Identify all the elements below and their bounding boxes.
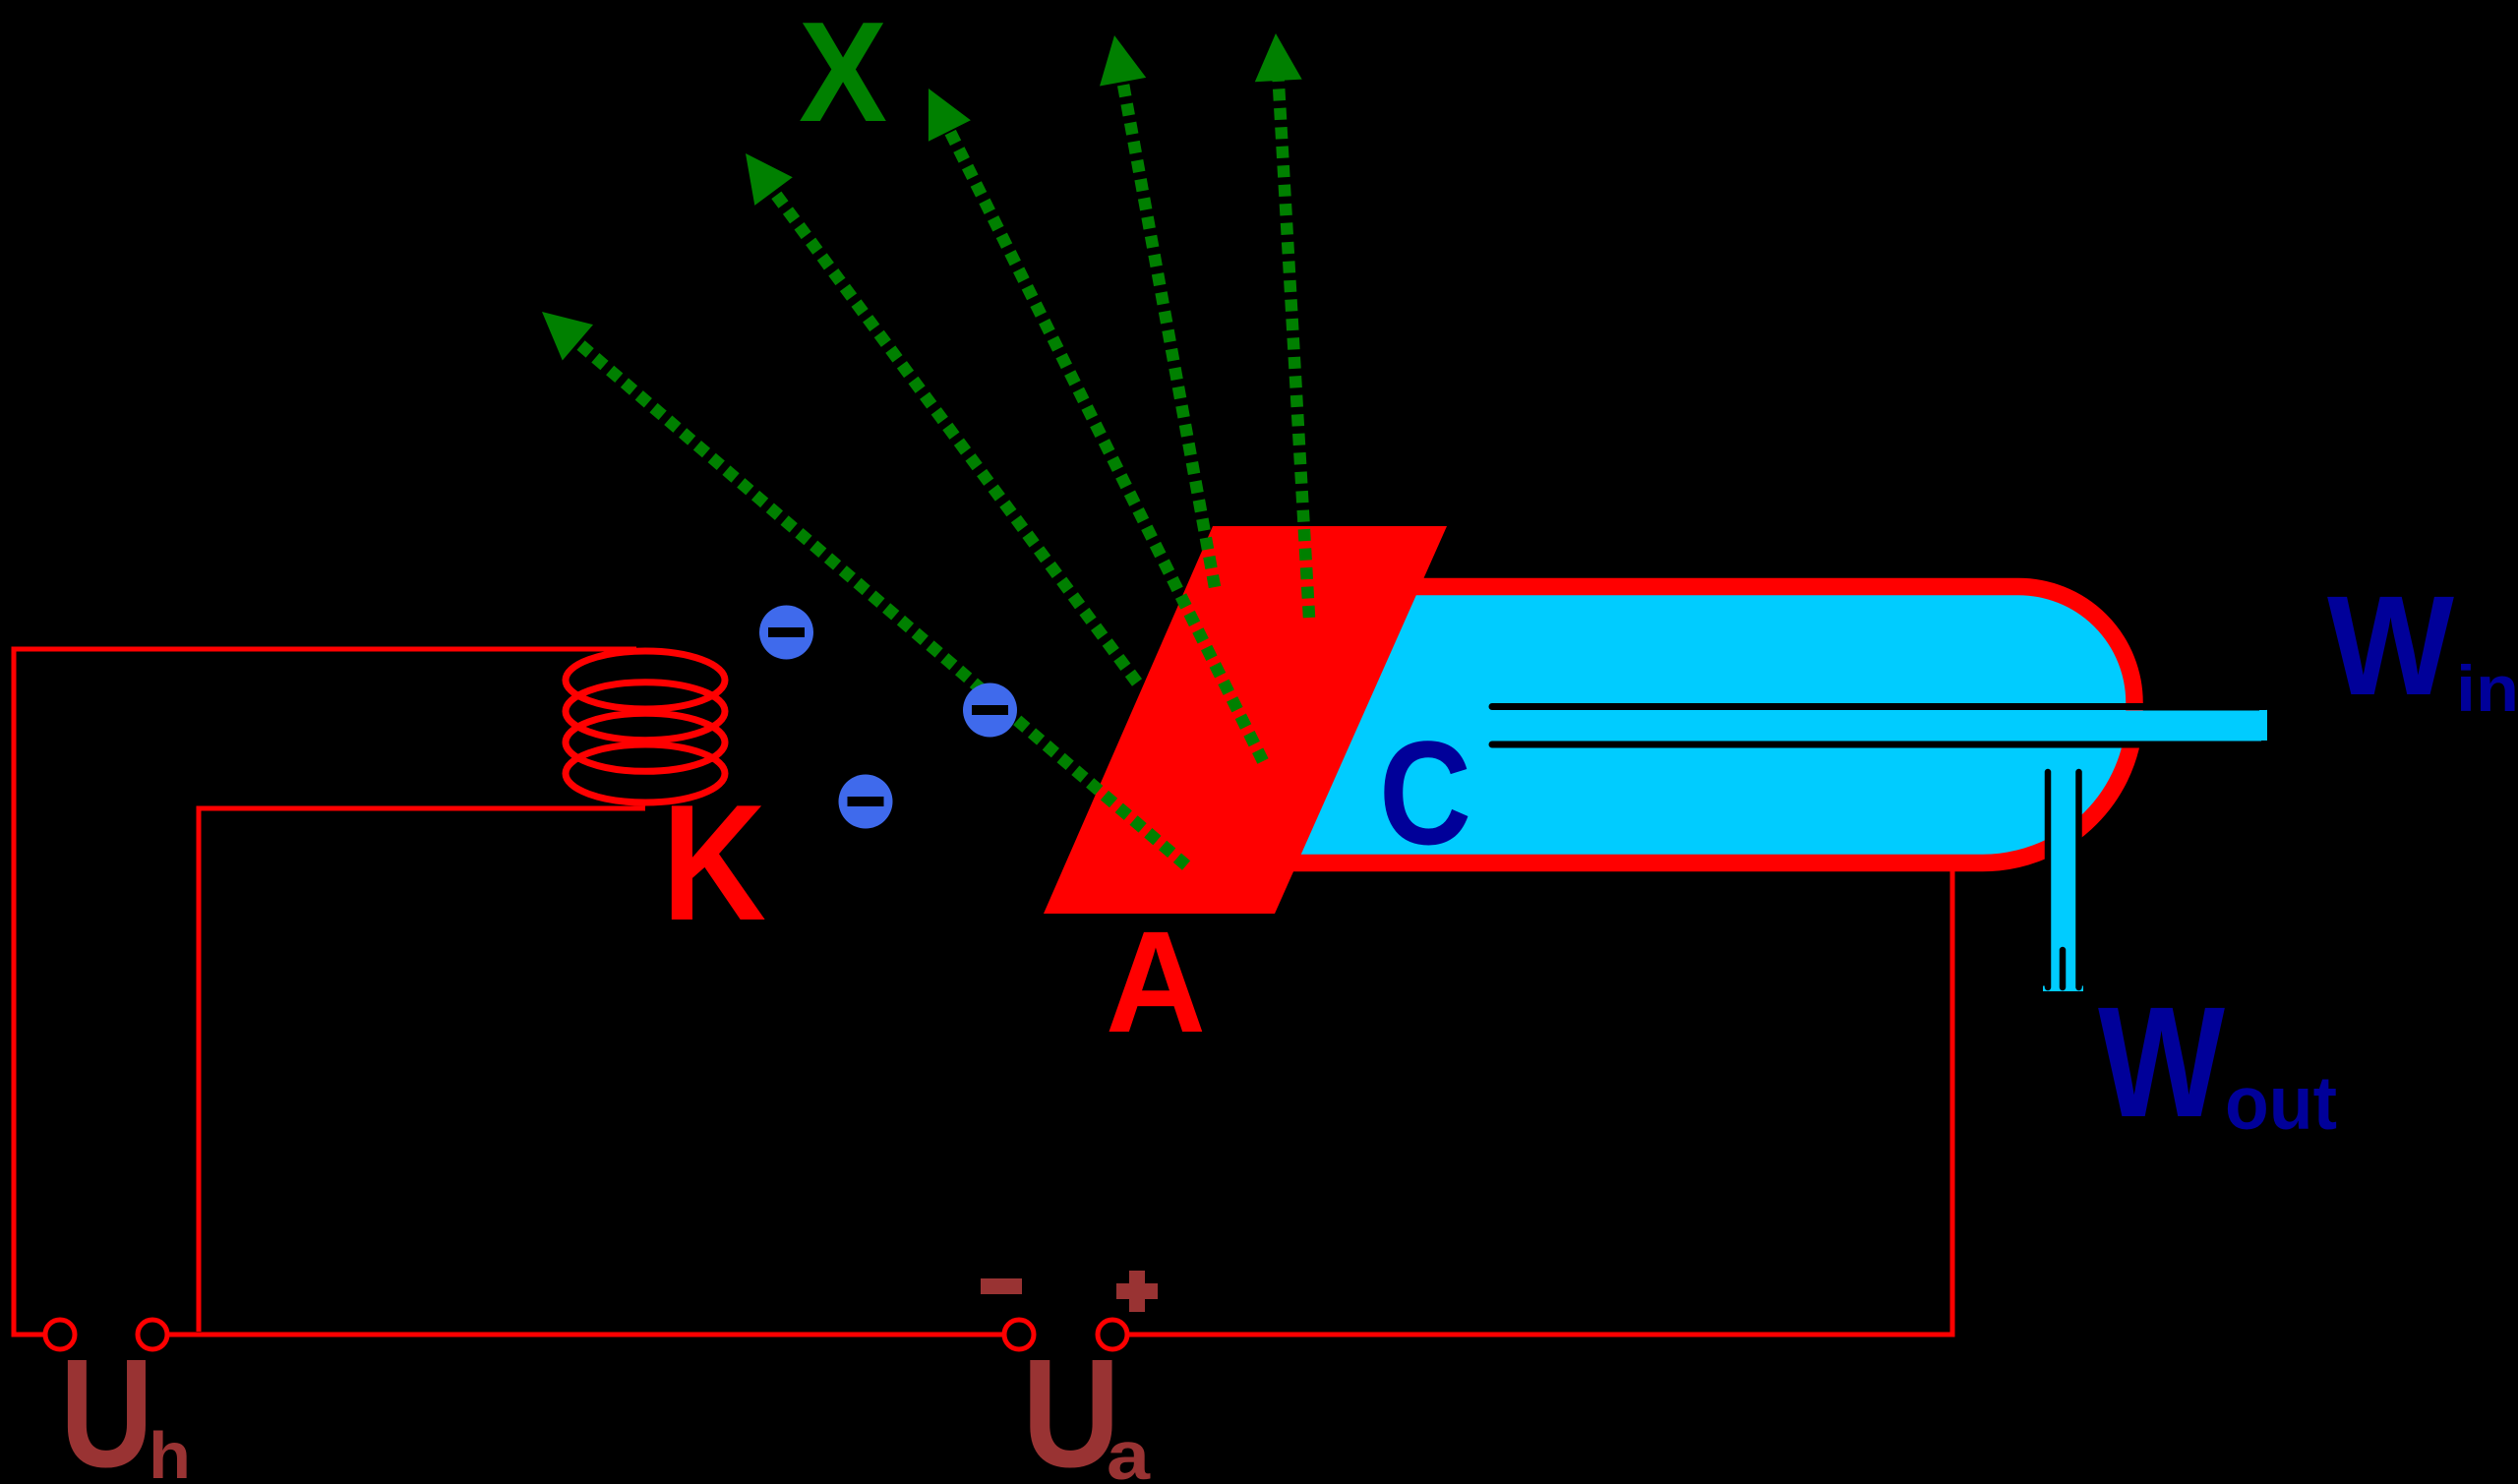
X-ray arrow 4 head bbox=[1100, 35, 1146, 87]
cathode filament coil K bbox=[566, 651, 725, 802]
water outlet pipe (vertical, W_out) bbox=[2051, 814, 2076, 991]
X-ray arrow 5 (dashed) bbox=[1278, 59, 1310, 618]
svg-text:W: W bbox=[2327, 566, 2454, 725]
X-ray arrow 4 (dashed) bbox=[1119, 61, 1215, 587]
electron 2 (e- symbol) bbox=[963, 683, 1017, 738]
svg-text:out: out bbox=[2225, 1061, 2337, 1146]
Ua terminal minus side bbox=[1004, 1320, 1034, 1349]
anode plate A (red parallelogram) bbox=[1044, 526, 1447, 914]
wire: from Ua right terminal right and up to anode block bbox=[1129, 863, 1952, 1335]
svg-text:in: in bbox=[2456, 652, 2518, 725]
Uh terminal left bbox=[45, 1320, 75, 1349]
svg-text:C: C bbox=[1379, 710, 1471, 875]
wire: heater bottom lead from coil to second rail down to bottom bus bbox=[199, 808, 645, 1332]
X-ray arrow 1 head bbox=[542, 312, 593, 361]
svg-text:U: U bbox=[1022, 1328, 1120, 1484]
wire: heater top lead from coil to left rail down to Uh terminal bbox=[14, 649, 636, 1335]
svg-text:a: a bbox=[1107, 1417, 1151, 1484]
svg-text:U: U bbox=[60, 1328, 153, 1484]
copper block C: cyan body with thick red outline, rounded right end bbox=[1229, 587, 2134, 863]
svg-text:K: K bbox=[662, 770, 766, 955]
X-ray arrow 3 (dashed) bbox=[940, 112, 1263, 761]
plus sign at Ua bbox=[1116, 1271, 1158, 1312]
X-ray arrow 3 head bbox=[929, 89, 971, 142]
Uh terminal right bbox=[138, 1320, 167, 1349]
wire: bottom bus from Uh right terminal to Ua left terminal bbox=[169, 1333, 1002, 1337]
X-ray arrow 1 (dashed) bbox=[562, 328, 1186, 865]
water inlet pipe (horizontal, W_in) bbox=[1426, 711, 2261, 742]
svg-text:W: W bbox=[2098, 974, 2225, 1150]
minus sign at Ua bbox=[981, 1278, 1022, 1294]
X-ray arrow 2 head bbox=[746, 153, 793, 206]
svg-text:X: X bbox=[799, 0, 887, 151]
Ua terminal plus side bbox=[1098, 1320, 1127, 1349]
electron 1 (e- symbol) bbox=[759, 606, 813, 660]
X-ray arrow 2 (dashed) bbox=[761, 174, 1137, 683]
X-ray arrow 5 head bbox=[1255, 33, 1302, 82]
electron 3 (e- symbol) bbox=[839, 775, 893, 829]
svg-text:A: A bbox=[1106, 902, 1206, 1063]
svg-text:h: h bbox=[149, 1419, 191, 1484]
